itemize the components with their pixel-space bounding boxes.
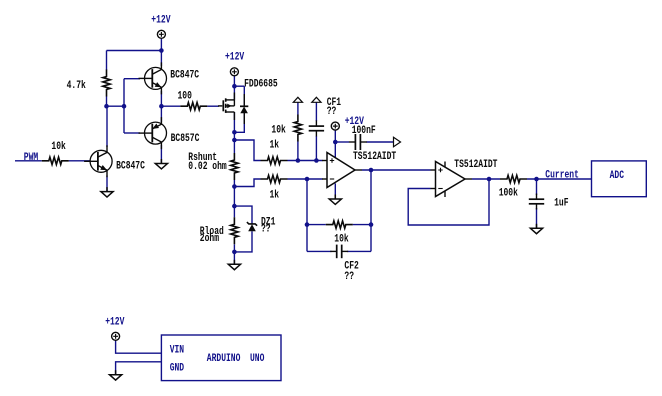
- svg-text:4.7k: 4.7k: [67, 79, 86, 91]
- svg-text:TS512AIDT: TS512AIDT: [454, 158, 497, 170]
- svg-text:ARDUINO UNO: ARDUINO UNO: [207, 352, 265, 364]
- svg-text:100: 100: [178, 90, 193, 102]
- svg-text:0.02 ohm: 0.02 ohm: [188, 160, 227, 172]
- svg-text:+12V: +12V: [105, 316, 124, 328]
- svg-text:1k: 1k: [270, 138, 280, 150]
- svg-text:10k: 10k: [334, 232, 349, 244]
- svg-text:2ohm: 2ohm: [200, 232, 219, 244]
- svg-text:Current: Current: [545, 169, 579, 181]
- svg-text:GND: GND: [170, 361, 185, 373]
- svg-text:VIN: VIN: [170, 343, 185, 355]
- svg-text:FDD6685: FDD6685: [244, 77, 278, 89]
- svg-text:??: ??: [327, 105, 337, 117]
- svg-text:10k: 10k: [51, 140, 66, 152]
- svg-text:100k: 100k: [499, 187, 518, 199]
- svg-text:PWM: PWM: [24, 151, 39, 163]
- svg-text:BC857C: BC857C: [171, 132, 200, 144]
- svg-text:+12V: +12V: [225, 50, 244, 62]
- svg-text:100nF: 100nF: [352, 124, 376, 136]
- svg-text:1uF: 1uF: [554, 196, 569, 208]
- svg-text:ADC: ADC: [610, 169, 625, 181]
- svg-text:??: ??: [344, 270, 354, 282]
- svg-text:+12V: +12V: [151, 13, 170, 25]
- svg-text:BC847C: BC847C: [116, 159, 145, 171]
- svg-text:??: ??: [261, 222, 271, 234]
- svg-text:1k: 1k: [270, 188, 280, 200]
- svg-text:BC847C: BC847C: [170, 68, 199, 80]
- svg-text:TS512AIDT: TS512AIDT: [353, 150, 396, 162]
- svg-text:10k: 10k: [271, 123, 286, 135]
